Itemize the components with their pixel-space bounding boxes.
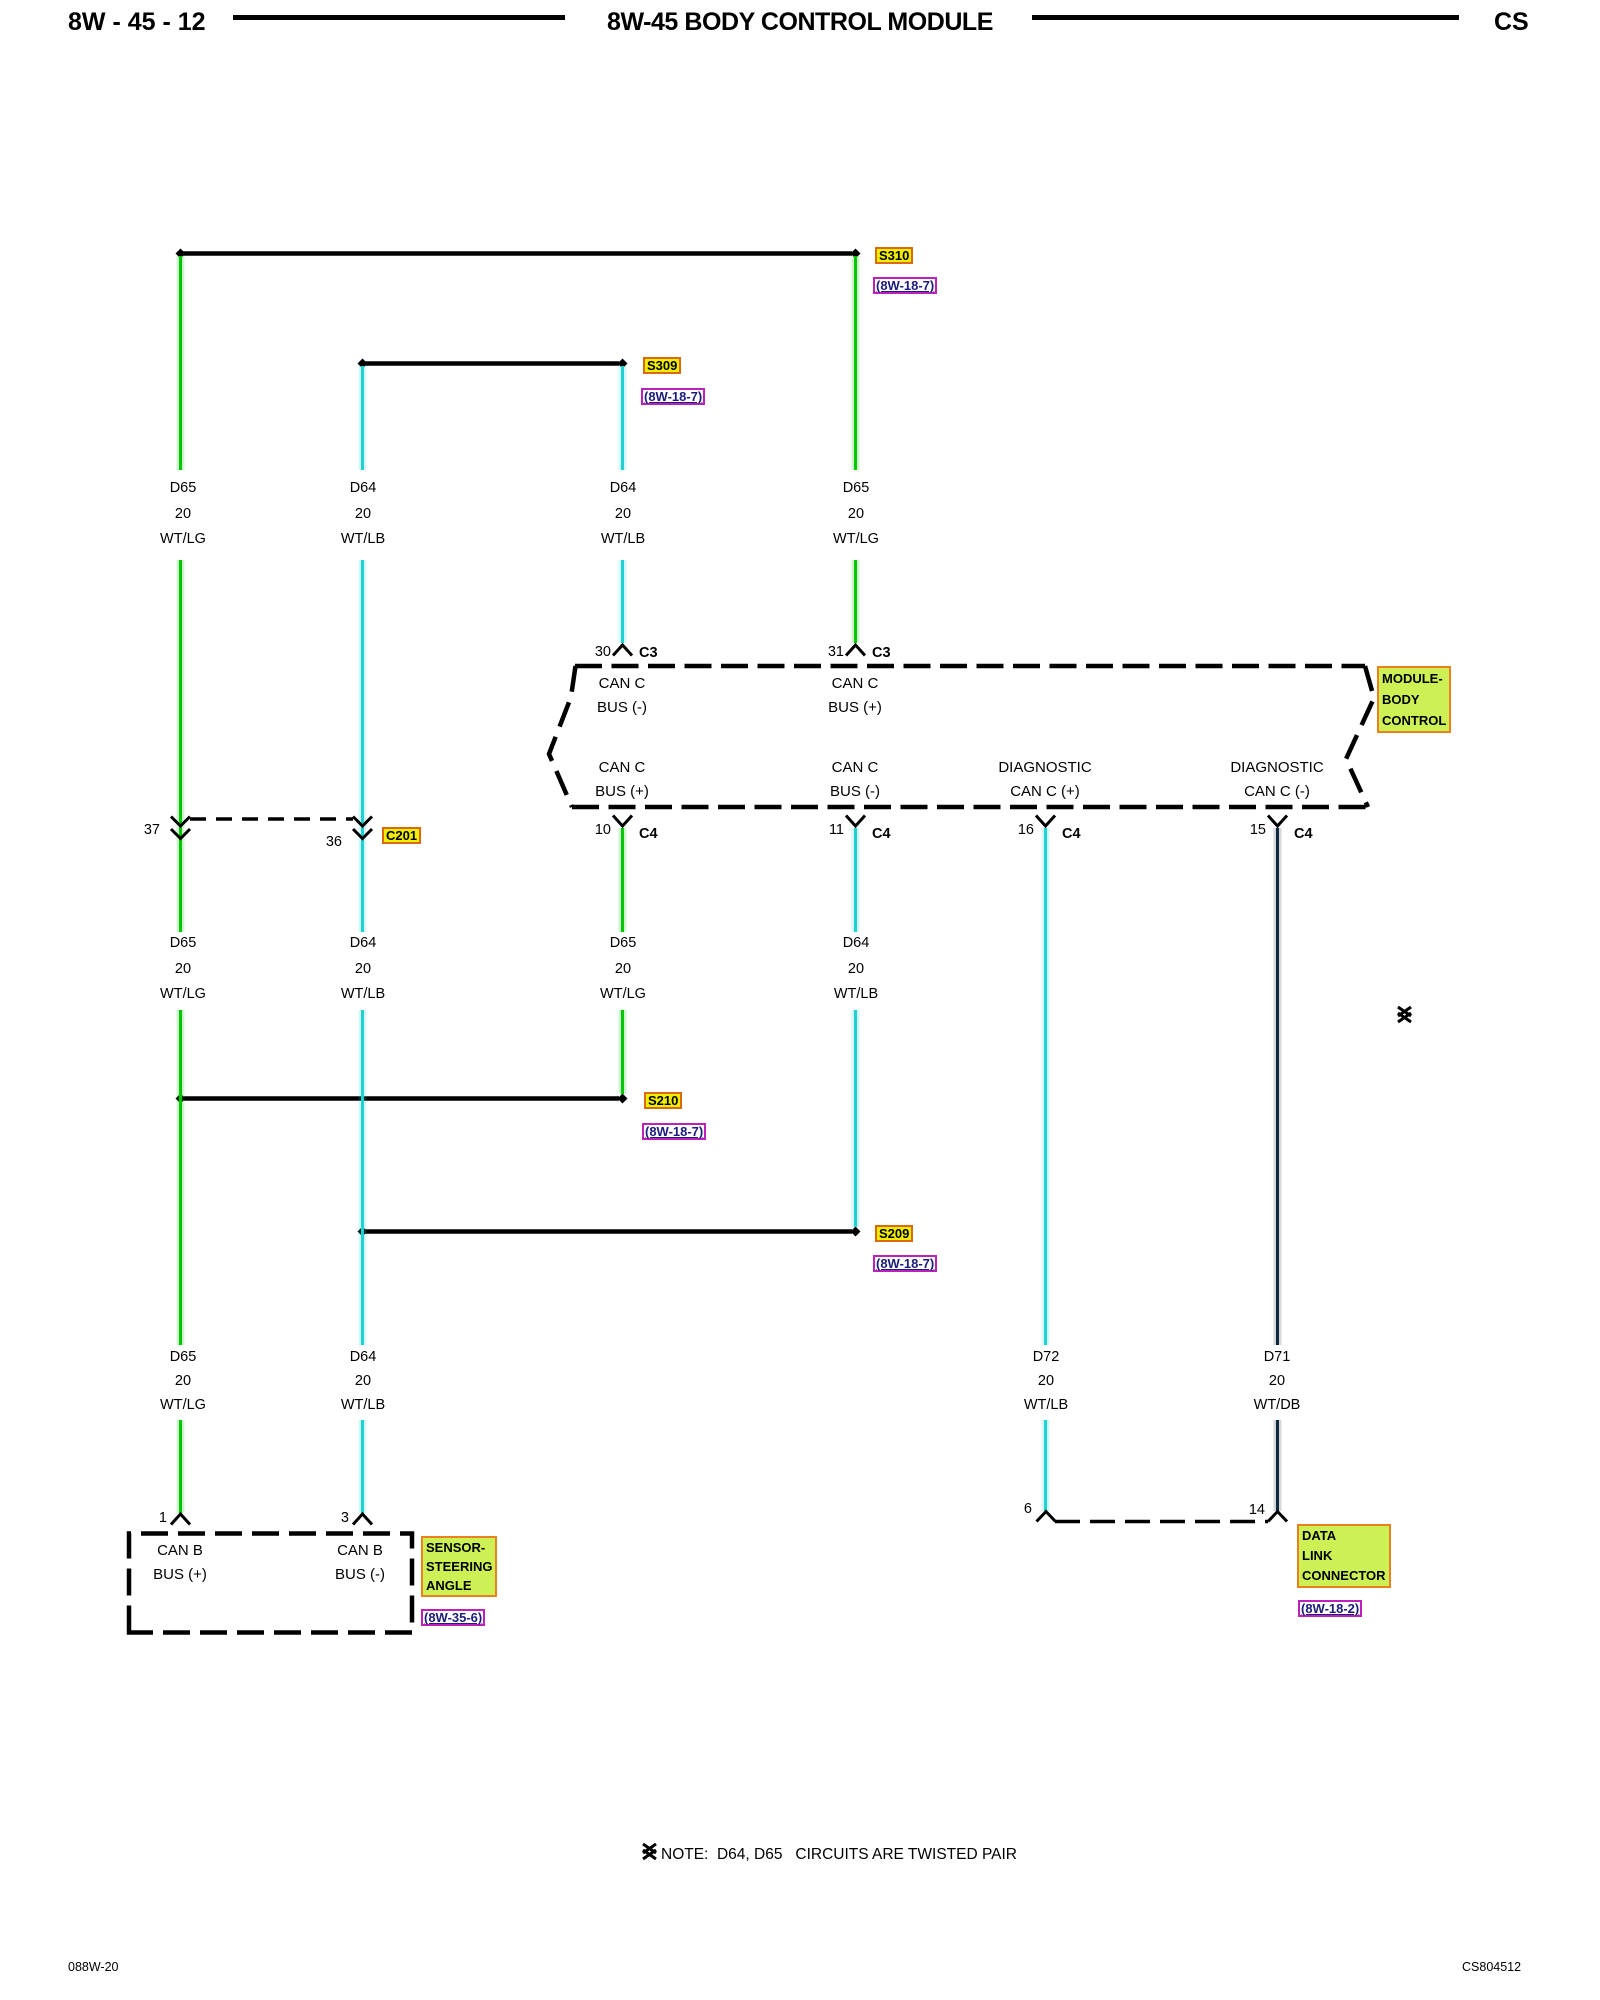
connector C201 label (382, 827, 421, 844)
pin 30 connector name C3 (639, 645, 658, 661)
splice S209 left junction diamond (358, 1227, 368, 1237)
twisted pair footnote marker near D71 wire (1398, 1007, 1411, 1022)
splice S309 bus bar (365, 361, 619, 366)
splice S210 label (644, 1092, 682, 1109)
wire label D64 20 WT/LB row2 col2 (293, 931, 433, 1008)
splice S309 left junction diamond (358, 359, 368, 369)
splice S210 page reference (642, 1123, 706, 1140)
wire D65 WT/LG column 4 upper segment (852, 256, 860, 470)
splice S310 left junction diamond (176, 249, 186, 259)
pin 10 C4 terminal chevron (613, 816, 632, 827)
pin 16 number (974, 822, 1034, 838)
sensor pin 1 terminal chevron (171, 1514, 190, 1525)
wire D64 WT/LB column 3 upper segment (619, 366, 627, 470)
DLC pin 6 number (972, 1501, 1032, 1517)
splice S210 left junction diamond (176, 1094, 186, 1104)
wire label D65 20 WT/LG row3 col1 (113, 1345, 253, 1417)
wire D72 WT/LB column 5 segment to DLC pin 6 (1042, 1420, 1050, 1511)
module-body control component label (1377, 666, 1451, 733)
wire D64 WT/LB column 2 segment through S210 to S209 (359, 1010, 367, 1345)
splice S209 label (875, 1225, 913, 1242)
connector C201 dashed link line (190, 817, 353, 821)
wire label D64 20 WT/LB row1 col2 (293, 476, 433, 553)
sensor-steering angle component label (421, 1536, 497, 1597)
wire D65 WT/LG column 1 upper segment (177, 256, 185, 470)
wire D64 WT/LB column 4 segment from pin 11 C4 (852, 828, 860, 932)
sensor pin 3 circuit function CAN B BUS (-) (280, 1539, 440, 1587)
wire D65 WT/LG column 1 segment to sensor pin 1 (177, 1420, 185, 1513)
pin 31 connector name C3 (872, 645, 891, 661)
wire label D64 20 WT/LB row3 col2 (293, 1345, 433, 1417)
pin 31 number (784, 644, 844, 660)
connector C201 left lower chevron (171, 829, 190, 839)
splice S210 bus bar (183, 1096, 619, 1101)
header right rule (1032, 15, 1459, 20)
splice S209 page reference (873, 1255, 937, 1272)
pin 15 connector name C4 (1294, 826, 1313, 842)
wire D65 WT/LG column 4 segment to pin 31 C3 (852, 560, 860, 643)
wire label D72 20 WT/LB row3 col5 (976, 1345, 1116, 1417)
twisted pair footnote marker at note (643, 1844, 656, 1859)
pin 11 number (784, 822, 844, 838)
wire D65 WT/LG column 1 segment through C201 (177, 560, 185, 932)
wire label D65 20 WT/LG row1 col1 (113, 476, 253, 553)
pin 16 C4 terminal chevron (1036, 816, 1055, 827)
wire label D65 20 WT/LG row1 col4 (786, 476, 926, 553)
wire D72 WT/LB column 5 from pin 16 C4 (1042, 828, 1050, 1345)
splice S310 right junction diamond (851, 249, 861, 259)
splice S309 right junction diamond (618, 359, 628, 369)
header left rule (233, 15, 565, 20)
pin 31 C3 terminal chevron (846, 645, 865, 656)
module body control box left torn edge (549, 666, 576, 807)
pin 10 number (551, 822, 611, 838)
header title (607, 8, 993, 37)
data link connector pin 14 terminal chevron (1268, 1512, 1287, 1522)
wire D64 WT/LB column 3 segment to pin 30 C3 (619, 560, 627, 643)
pin 15 number (1206, 822, 1266, 838)
splice S309 page reference (641, 388, 705, 405)
module pin 15 circuit function DIAGNOSTIC CAN C (-) (1197, 756, 1357, 804)
module pin 10 circuit function CAN C BUS (+) (542, 756, 702, 804)
header CS mark (1494, 8, 1529, 37)
module pin 30 circuit function CAN C BUS (-) (542, 672, 702, 720)
wire D64 WT/LB column 2 segment through C201 (359, 560, 367, 932)
sensor pin 3 number (289, 1510, 349, 1526)
module body control box bottom edge (572, 805, 1368, 810)
data link connector pin 6 terminal chevron (1037, 1512, 1056, 1522)
sensor-steering angle page reference (421, 1609, 485, 1626)
splice S309 label (643, 357, 681, 374)
wire label D65 20 WT/LG row2 col3 (553, 931, 693, 1008)
sensor pin 3 terminal chevron (353, 1514, 372, 1525)
wire label D71 20 WT/DB row3 col6 (1207, 1345, 1347, 1417)
data link connector dashed link line (1055, 1520, 1268, 1524)
wire D64 WT/LB column 2 upper segment (359, 366, 367, 470)
pin 30 C3 terminal chevron (613, 645, 632, 656)
wire label D65 20 WT/LG row2 col1 (113, 931, 253, 1008)
module body control box right torn edge (1346, 666, 1374, 807)
pin 16 connector name C4 (1062, 826, 1081, 842)
wire D65 WT/LG column 3 segment from pin 10 C4 (619, 828, 627, 932)
splice S209 bus bar (365, 1229, 852, 1234)
wire D65 WT/LG column 3 segment to S210 (619, 1010, 627, 1094)
footer left code (68, 1960, 119, 1974)
module body control box top edge (575, 664, 1365, 669)
splice S209 right junction diamond (851, 1227, 861, 1237)
wire D64 WT/LB column 4 segment to S209 (852, 1010, 860, 1227)
DLC pin 14 number (1205, 1502, 1265, 1518)
wire label D64 20 WT/LB row1 col3 (553, 476, 693, 553)
data link connector page reference (1298, 1600, 1362, 1617)
module pin 31 circuit function CAN C BUS (+) (775, 672, 935, 720)
pin 11 C4 terminal chevron (846, 816, 865, 827)
module pin 16 circuit function DIAGNOSTIC CAN C (+) (965, 756, 1125, 804)
wire D65 WT/LG column 1 segment through S210 (177, 1010, 185, 1345)
data link connector component label (1297, 1524, 1391, 1588)
pin 36 number at C201 (282, 834, 342, 850)
splice S210 right junction diamond (618, 1094, 628, 1104)
connector C201 right upper chevron pin 36 (353, 817, 372, 827)
wire D71 WT/DB column 6 segment to DLC pin 14 (1274, 1420, 1282, 1511)
twisted pair note text (661, 1846, 1017, 1864)
splice S310 bus bar (183, 251, 852, 256)
splice S310 page reference (873, 277, 937, 294)
sensor-steering angle connector box dashed outline (129, 1534, 412, 1633)
wire label D64 20 WT/LB row2 col4 (786, 931, 926, 1008)
connector C201 right lower chevron (353, 829, 372, 839)
wire D64 WT/LB column 2 segment to sensor pin 3 (359, 1420, 367, 1513)
pin 30 number (551, 644, 611, 660)
pin 15 C4 terminal chevron (1268, 816, 1287, 827)
pin 10 connector name C4 (639, 826, 658, 842)
pin 37 number at C201 (100, 822, 160, 838)
pin 11 connector name C4 (872, 826, 891, 842)
header left page number (68, 8, 206, 37)
module pin 11 circuit function CAN C BUS (-) (775, 756, 935, 804)
connector C201 left upper chevron pin 37 (171, 817, 190, 827)
wire D71 WT/DB column 6 from pin 15 C4 (1274, 828, 1282, 1345)
sensor pin 1 number (107, 1510, 167, 1526)
footer right code (1462, 1960, 1521, 1974)
splice S310 label (875, 247, 913, 264)
sensor pin 1 circuit function CAN B BUS (+) (100, 1539, 260, 1587)
